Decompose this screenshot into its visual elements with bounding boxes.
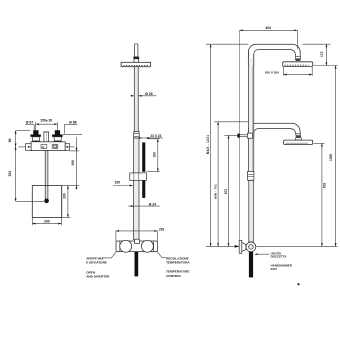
clearance square 200x190 (32, 186, 61, 218)
dimension 1008 (335, 66, 337, 247)
svg-text:E DEVIATORE: E DEVIATORE (86, 261, 107, 265)
ball joint (134, 57, 139, 62)
knob left (front) (30, 130, 41, 141)
svg-text:150± 20: 150± 20 (40, 118, 52, 122)
column tube lower (side) (249, 180, 254, 242)
upper head nozzles dotted (285, 64, 309, 66)
mixer body end caps (plan) (119, 241, 121, 251)
leader apertura (102, 252, 116, 258)
svg-text:MIN - 751: MIN - 751 (214, 184, 218, 199)
dimension 291 (116, 231, 158, 241)
dimension 170 (303, 44, 338, 65)
svg-text:23 X 23: 23 X 23 (150, 134, 161, 138)
svg-text:CONTROL: CONTROL (166, 274, 181, 278)
svg-text:DOCCETTA: DOCCETTA (271, 255, 288, 259)
svg-text:618: 618 (323, 183, 327, 189)
head arm (front) (135, 44, 138, 57)
mixer body plan (116, 241, 158, 252)
svg-text:80: 80 (8, 138, 12, 142)
dimension 872 (224, 134, 237, 136)
body detail G1/2 box (41, 145, 47, 149)
valve centre line bottom (206, 245, 239, 247)
column top curve outer (248, 44, 300, 66)
dimension 200X200 (284, 67, 313, 76)
lower shower head (side) (284, 140, 313, 144)
svg-text:EXIT: EXIT (271, 267, 278, 271)
wall line (239, 30, 241, 246)
svg-text:291: 291 (159, 227, 165, 231)
column collar on mixer (135, 239, 140, 243)
lower head cone (295, 138, 302, 140)
down pipe (45, 151, 48, 200)
dimension 190 upper (63, 135, 82, 190)
handshower wand upper (front) (142, 142, 145, 171)
knob circle left (plan) (120, 240, 132, 252)
wall bracket (237, 134, 239, 138)
label Ø26 (131, 95, 135, 97)
svg-text:Ø 67: Ø 67 (26, 120, 33, 124)
svg-text:324: 324 (8, 171, 12, 177)
top outlet stub (43, 132, 49, 142)
column tube upper (side) (249, 58, 254, 171)
handshower hanging (front) (135, 252, 139, 277)
svg-text:404: 404 (265, 26, 271, 30)
svg-text:200 X 200: 200 X 200 (265, 71, 279, 75)
svg-text:170: 170 (320, 51, 324, 57)
dimension MIN-751 (214, 121, 248, 123)
leader uscita (255, 253, 270, 255)
dimension 618 (313, 142, 324, 144)
column pipe upper (134, 67, 138, 132)
shower head bar (front) (121, 62, 150, 66)
slider holder (130, 173, 147, 180)
leader regolazione (157, 251, 166, 257)
mixer body (31, 142, 65, 151)
svg-text:Ø 26: Ø 26 (145, 92, 152, 96)
lower position curve inner (254, 129, 296, 138)
dimension 80/324 vertical line (16, 131, 45, 202)
stray dot (297, 283, 299, 285)
right inlet cap (65, 144, 69, 151)
handshower wand (side) (249, 252, 253, 278)
svg-text:872: 872 (224, 189, 228, 195)
head nozzles dotted (123, 65, 148, 67)
dimension 200 bottom (32, 217, 61, 225)
valve body circle (246, 242, 256, 252)
svg-text:190: 190 (62, 193, 66, 199)
svg-text:190: 190 (71, 160, 75, 166)
svg-text:TEMPERATURA: TEMPERATURA (166, 261, 190, 265)
knob circle right (plan) (141, 240, 153, 252)
column top curve inner (254, 50, 296, 66)
left inlet cap (26, 144, 32, 151)
label 23X23 (139, 137, 163, 139)
telescopic junction (248, 171, 254, 180)
column pipe lower (134, 138, 139, 240)
svg-text:Ø 68: Ø 68 (69, 120, 76, 124)
dimension 190 square side (61, 186, 79, 218)
upper shower head (side) (283, 62, 313, 67)
svg-text:105: 105 (115, 181, 121, 185)
label Ø24 (128, 205, 159, 207)
lower head ball collar (296, 134, 301, 137)
valve knob (side) (239, 240, 242, 253)
handshower wand lower (front) (142, 180, 145, 198)
hose end dot (44, 199, 49, 204)
dimension 150±20 line (36, 122, 58, 130)
svg-text:MAX - 1221: MAX - 1221 (206, 135, 210, 155)
bracket collar on column (247, 133, 252, 138)
dimension MAX-1221 (206, 43, 249, 45)
svg-text:180: 180 (153, 152, 157, 158)
upper head ball collar (295, 56, 300, 59)
svg-text:Ø 24: Ø 24 (149, 202, 156, 206)
svg-text:200: 200 (44, 220, 50, 224)
body width arrows and ticks (18, 146, 26, 148)
svg-text:AND DIVERTER: AND DIVERTER (86, 275, 110, 279)
lower position curve outer (248, 123, 300, 138)
body detail diverter box (52, 145, 58, 149)
junction collar (134, 132, 140, 138)
svg-text:1008: 1008 (329, 154, 333, 161)
dimension 180 (147, 139, 160, 172)
knob right (front) (52, 130, 63, 141)
